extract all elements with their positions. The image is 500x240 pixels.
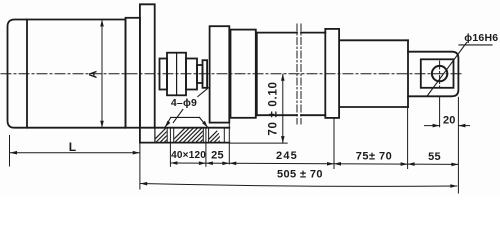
svg-text:75± 70: 75± 70 [356,150,393,162]
svg-text:L: L [69,140,77,154]
svg-text:70 ± 0.10: 70 ± 0.10 [268,81,280,135]
svg-text:505 ± 70: 505 ± 70 [277,168,323,180]
svg-text:40×120: 40×120 [171,150,206,161]
svg-text:4–ϕ9: 4–ϕ9 [171,97,197,109]
svg-text:A: A [87,70,99,78]
svg-text:25: 25 [211,149,224,161]
svg-text:ϕ16H6: ϕ16H6 [464,32,498,44]
svg-text:20: 20 [443,114,456,126]
svg-text:245: 245 [276,150,298,162]
svg-text:55: 55 [428,151,441,163]
